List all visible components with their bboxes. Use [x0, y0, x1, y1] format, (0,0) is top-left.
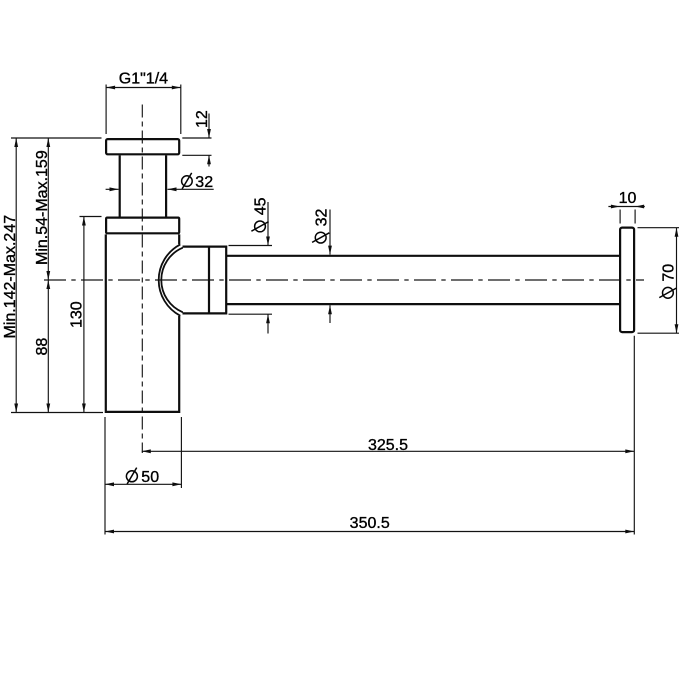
- svg-text:130: 130: [68, 301, 85, 328]
- cap flange: [106, 139, 179, 154]
- dimension 10 (flange thickness): [608, 190, 644, 223]
- horizontal pipe: [227, 256, 620, 304]
- elbow dome inner arc: [161, 248, 183, 313]
- svg-text:10: 10: [619, 190, 637, 207]
- vertical centerline of trap body: [141, 105, 143, 454]
- nut flange: [106, 218, 179, 234]
- dimension Min.54-Max.159: [34, 138, 51, 413]
- extension line bottom (body bottom level): [11, 412, 103, 414]
- svg-text:G1"1/4: G1"1/4: [119, 71, 168, 88]
- dimension Ø50 (body): [105, 417, 181, 535]
- wall flange: [620, 228, 634, 333]
- dimension 325.5: [142, 437, 635, 454]
- tube between cap and nut: [120, 155, 166, 216]
- svg-text:88: 88: [34, 338, 51, 356]
- dimension Min.142-Max.247: [2, 138, 19, 413]
- svg-text:Min.142-Max.247: Min.142-Max.247: [2, 215, 19, 339]
- dimension G1"1/4: [106, 71, 181, 135]
- svg-text:350.5: 350.5: [350, 515, 390, 532]
- svg-text:32: 32: [313, 209, 330, 227]
- horizontal centerline of pipe: [44, 279, 644, 281]
- dimension 130: [68, 217, 101, 413]
- collar ring line: [208, 247, 210, 314]
- svg-text:12: 12: [194, 110, 211, 128]
- elbow/collar outline: [183, 247, 227, 314]
- dimension Ø45 (collar): [229, 197, 273, 333]
- svg-text:70: 70: [661, 264, 678, 282]
- svg-text:50: 50: [141, 469, 159, 486]
- dimension 12 (cap thickness): [182, 110, 211, 166]
- svg-text:Min.54-Max.159: Min.54-Max.159: [34, 150, 51, 265]
- svg-text:32: 32: [195, 174, 213, 191]
- dimension 88: [34, 280, 51, 413]
- extension line from wall flange down: [633, 336, 635, 535]
- svg-text:45: 45: [253, 197, 270, 215]
- extension line top (cap level): [11, 137, 102, 139]
- dimension Ø32 (pipe): [312, 209, 332, 323]
- dimension Ø70 (flange): [638, 228, 679, 334]
- svg-text:325.5: 325.5: [368, 437, 408, 454]
- trap body: [106, 234, 179, 412]
- dimension Ø32 (tube): [106, 173, 214, 191]
- elbow dome outer arc: [159, 244, 181, 315]
- dimension 350.5: [105, 515, 634, 534]
